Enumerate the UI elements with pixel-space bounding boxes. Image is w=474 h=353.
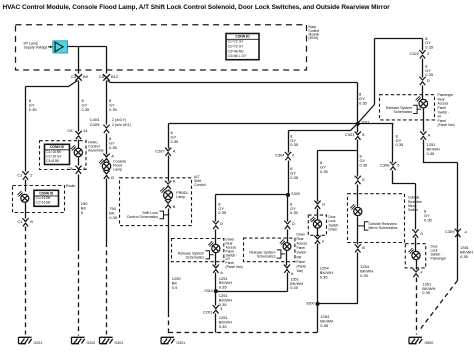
wire console ground wire dashed (106, 243, 108, 335)
reference bracket release reference 2 (277, 249, 285, 258)
connector access panel 2 pin D (284, 221, 290, 229)
wire D to lamp 1 (215, 230, 217, 245)
svg-text:C4=66 L-GY: C4=66 L-GY (228, 54, 248, 58)
wire lamp to F (317, 229, 319, 237)
wire F to S500 (317, 244, 319, 304)
svg-text:B: B (362, 245, 365, 250)
lamp door lock switch driver illumination (310, 217, 322, 228)
wire G to lamp (415, 238, 417, 252)
wire lamp to C2 pin 8 (78, 157, 80, 166)
svg-text:HVAC Control Module, Console F: HVAC Control Module, Console Flood Lamp,… (3, 4, 391, 11)
wire passenger access return (424, 140, 458, 281)
wire branch to I/P lamp column (26, 81, 78, 172)
connector C5 / B12 (103, 74, 110, 81)
wire C304 to S309 (288, 161, 290, 195)
wire supply jog to passenger access column (375, 38, 423, 40)
wire PRNDL return wire solid (168, 209, 170, 313)
wire supply diagonal into S311 (358, 105, 375, 124)
svg-text:D: D (292, 221, 295, 226)
svg-text:A: A (428, 133, 431, 138)
svg-text:C1=16 BK: C1=16 BK (46, 150, 62, 154)
svg-text:D: D (427, 78, 430, 83)
svg-text:A: A (220, 270, 223, 275)
connector door lock driver pin G (314, 201, 320, 209)
component driver rear access panel switch 2 dashed box (244, 238, 295, 262)
splice S310 (214, 289, 218, 293)
wire illumination bus (169, 123, 394, 125)
svg-text:S311: S311 (362, 120, 370, 124)
wire C405 to console lamp A (106, 134, 108, 155)
svg-text:C1: C1 (17, 219, 23, 224)
ground G301 (161, 337, 185, 345)
component A/T shift control dashed box (120, 178, 192, 226)
connector PRNDL pin A (165, 181, 171, 189)
connector passenger access pin D (419, 77, 425, 85)
svg-text:C309: C309 (445, 229, 455, 234)
wire branch to door lock driver (318, 151, 358, 202)
wire BCM output to C4 (78, 47, 80, 74)
connector mirror switch pin B (355, 244, 361, 252)
svg-text:B: B (111, 175, 114, 180)
svg-text:C3=46 RD: C3=46 RD (228, 49, 244, 53)
lamp driver rear access panel switch illumination 2 (280, 239, 291, 250)
connector C2 pin 8 (75, 166, 81, 174)
ground G201 (19, 337, 43, 345)
reference bracket shift lock reference (160, 211, 169, 220)
connector access panel 2 pin A (284, 265, 290, 273)
connector ID table I/P lamp CONN ID (34, 190, 59, 206)
wire S309 branch left (216, 194, 289, 196)
svg-text:S500: S500 (306, 302, 314, 306)
svg-text:C1: C1 (17, 172, 23, 177)
connector C287 (165, 148, 171, 156)
wire mirror lamp to B (357, 217, 359, 245)
connector door lock passenger pin F (413, 269, 419, 277)
wire branch to C304 (289, 124, 358, 153)
wire G to lamp (317, 209, 319, 221)
svg-text:C4: C4 (71, 74, 77, 79)
svg-text:Outside RearviewMirror Schemat: Outside RearviewMirror Schematics (369, 222, 398, 230)
wire A to S310 (215, 273, 217, 292)
connector ID table HVAC CONN ID (45, 144, 70, 164)
wire C308 to door lock passenger (393, 171, 416, 230)
wire lamp to A (423, 109, 425, 132)
connector door lock passenger pin G (412, 229, 418, 237)
connector console pin A (103, 154, 109, 162)
connector C301 (355, 132, 361, 140)
svg-text:G500: G500 (425, 341, 434, 345)
svg-text:Radio: Radio (66, 184, 75, 188)
svg-text:C301: C301 (345, 132, 355, 137)
svg-text:D: D (220, 221, 223, 226)
wire radio ground wire dashed (78, 247, 80, 336)
svg-text:A: A (291, 271, 294, 276)
connector access panel 1 pin D (213, 221, 219, 229)
svg-text:C5: C5 (99, 74, 105, 79)
svg-text:S309: S309 (291, 192, 299, 196)
connector C304 (285, 152, 291, 160)
svg-text:C201: C201 (203, 309, 213, 314)
splice S500 (316, 302, 320, 306)
wire D to lamp 2 (287, 230, 289, 243)
wire S310 branch to access 2 (216, 273, 288, 292)
wire S500 to ground bus (317, 304, 319, 333)
lamp HVAC control assembly illumination lamp (71, 145, 83, 157)
svg-text:C322: C322 (409, 51, 419, 56)
component HVAC control assembly dashed box (40, 141, 87, 170)
svg-text:14: 14 (83, 128, 88, 133)
lamp console flood lamp (99, 159, 111, 171)
lamp door lock switch passenger illumination (409, 248, 421, 259)
connector C2 pin 14 (75, 131, 81, 139)
component door lock switch driver dashed box (308, 215, 326, 235)
wire C201 to ground bus (215, 314, 217, 333)
svg-text:B: B (173, 204, 176, 209)
connector console pin B (103, 171, 109, 179)
ground G401 (100, 337, 124, 345)
ground G500 (409, 337, 433, 345)
wire mirror B to S500 (318, 253, 358, 304)
connector access panel 1 pin A (213, 265, 219, 273)
wire supply bus to S311 (108, 81, 358, 124)
svg-text:B12: B12 (111, 74, 119, 79)
wire S309 wire down right side (287, 195, 289, 222)
svg-text:C8: C8 (67, 166, 73, 171)
svg-text:C2=16 GY: C2=16 GY (46, 154, 62, 158)
connector passenger access pin A (420, 131, 426, 139)
component I/P lamp assembly dashed box (13, 186, 65, 213)
wire supply vertical to S311 drop (374, 39, 376, 105)
wire bottom ground bus dashed (169, 332, 318, 334)
svg-text:C404C405: C404C405 (90, 117, 100, 127)
component outside rearview mirror switch dashed box (348, 194, 405, 243)
wire lamp2 to A (286, 251, 288, 266)
svg-text:B: B (30, 219, 33, 224)
svg-text:C304: C304 (275, 153, 285, 158)
wire I/P lamp supply feed horizontal (68, 46, 107, 48)
wire stub (106, 162, 108, 163)
connector C309 (455, 229, 461, 237)
wire C322 to D (422, 59, 424, 78)
svg-text:G401: G401 (115, 341, 124, 345)
wire bus drop to C308 (392, 124, 394, 163)
lamp outside rearview mirror switch illumination (350, 204, 362, 215)
wire lamp ground wire dashed (25, 227, 27, 335)
lamp PRNDL lamp (160, 187, 172, 199)
splice S311 (356, 122, 360, 126)
wire C5 to C404 (106, 81, 108, 125)
svg-text:CONN ID: CONN ID (50, 145, 65, 149)
svg-text:C2=16 BK: C2=16 BK (36, 201, 52, 205)
svg-text:C2=72 GY: C2=72 GY (228, 45, 245, 49)
svg-text:C8: C8 (67, 128, 73, 133)
wire lamp to F (416, 260, 418, 270)
connector C404 / C405 (103, 125, 109, 133)
svg-text:C3=8 BK: C3=8 BK (46, 159, 60, 163)
connector door lock driver pin F (314, 236, 320, 244)
svg-text:C1=16 BK: C1=16 BK (36, 196, 52, 200)
wire S309 to D conn 1 (215, 195, 217, 222)
svg-text:CONN ID: CONN ID (39, 191, 54, 195)
connector mirror switch pin E (355, 176, 361, 184)
svg-text:C1=72 GY: C1=72 GY (228, 40, 245, 44)
connector C1 upper (22, 171, 28, 179)
lamp I/P cluster illumination lamp (17, 191, 28, 202)
connector C308 (390, 162, 396, 170)
splice S309 (286, 193, 290, 197)
component passenger rear access panel switch dashed box (380, 95, 435, 120)
wire S311 down to C301 (357, 124, 359, 133)
wire F to G500 dashed (416, 278, 418, 335)
wire lamp1 to A (215, 253, 217, 266)
wire supply to C322 (422, 39, 424, 51)
svg-text:G: G (322, 202, 325, 207)
svg-text:E: E (362, 177, 365, 182)
wire bus drop to C287 (168, 124, 170, 149)
wire BCM output to C5 (106, 47, 108, 74)
wire E to mirror lamp (357, 185, 359, 207)
wire D to lamp (422, 86, 424, 100)
reference bracket release reference 1 (206, 250, 214, 259)
svg-text:S310: S310 (204, 289, 212, 293)
svg-text:CONN ID: CONN ID (235, 35, 250, 39)
lamp driver rear access panel switch illumination 1 (208, 241, 220, 252)
connector C4 / B9 (75, 74, 82, 81)
svg-text:B9: B9 (83, 74, 89, 79)
wire lamp to C1 lower (25, 203, 27, 219)
svg-text:G202: G202 (87, 341, 96, 345)
svg-text:G201: G201 (34, 341, 43, 345)
wire diagonal to G500 dashed (419, 281, 458, 332)
connector ID table BCM CONN ID (226, 34, 259, 60)
svg-text:A: A (173, 178, 176, 183)
wire C287 to A/T box (168, 156, 170, 182)
svg-text:G: G (420, 231, 423, 236)
svg-text:C287: C287 (155, 148, 165, 153)
svg-text:A: A (173, 148, 176, 153)
wire radio ground wire solid (78, 175, 80, 247)
wire stub into PRNDL lamp (168, 190, 170, 191)
module Body Control Module (BCM) dashed box (16, 25, 307, 70)
connector C1 lower (22, 218, 28, 226)
wire PRNDL return dashed (168, 313, 170, 335)
connector PRNDL pin B (165, 200, 171, 208)
svg-text:A: A (111, 153, 114, 158)
I/P lamp supply voltage driver U1 (48, 41, 68, 53)
reference bracket release reference 3 (413, 105, 421, 114)
wire S310 to C201 (215, 292, 217, 306)
wire C1 to lamp (25, 180, 27, 192)
lamp passenger rear access panel switch illumination (416, 96, 428, 108)
svg-text:G301: G301 (177, 341, 186, 345)
svg-text:C308: C308 (380, 162, 390, 167)
wire C4 to HVAC control assembly (78, 81, 80, 132)
component door lock switch passenger dashed box (405, 244, 425, 268)
connector C322 (419, 50, 425, 58)
connector C201 (213, 305, 219, 313)
wire console ground wire solid (106, 179, 108, 243)
wire C301 to mirror switch E (357, 140, 359, 177)
component driver rear access panel switch 1 dashed box (172, 239, 224, 262)
reference bracket mirror reference (358, 221, 369, 230)
wire into HVAC lamp (78, 140, 80, 149)
ground G202 (72, 337, 96, 345)
